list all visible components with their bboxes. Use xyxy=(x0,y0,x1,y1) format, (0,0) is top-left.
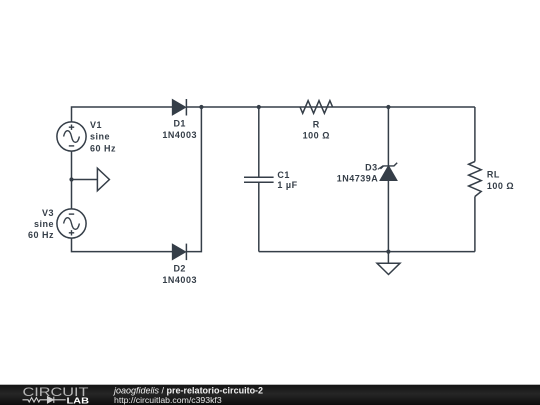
wire top-left from V1 top up and right to D1 anode xyxy=(72,107,173,122)
svg-text:60 Hz: 60 Hz xyxy=(28,230,54,240)
svg-text:D2: D2 xyxy=(173,263,186,273)
svg-text:1N4003: 1N4003 xyxy=(162,275,197,285)
diode D1 cathode bar xyxy=(185,99,187,116)
svg-text:V1: V1 xyxy=(90,120,102,130)
svg-text:http://circuitlab.com/c393kf3: http://circuitlab.com/c393kf3 xyxy=(114,395,222,405)
voltage source V1 plus sign xyxy=(69,125,74,130)
wire zener branch top xyxy=(387,107,389,166)
capacitor C1 bottom plate xyxy=(244,181,274,183)
svg-text:V3: V3 xyxy=(42,208,54,218)
junction node dot at ground xyxy=(386,250,390,254)
junction node dot at C1 top xyxy=(257,105,261,109)
svg-text:C1: C1 xyxy=(277,170,290,180)
diode D1 triangle xyxy=(173,100,186,115)
wire V1 bottom to center-tap node xyxy=(71,151,73,179)
wire bottom rail from C1 to RL corner xyxy=(259,251,475,253)
wire center-tap stub to arrow xyxy=(72,179,98,181)
ground symbol stub xyxy=(387,252,389,264)
voltage source V1 minus sign xyxy=(69,145,74,147)
junction node dot at D3 top xyxy=(386,105,390,109)
wire RL bottom to bottom rail xyxy=(474,197,476,252)
svg-text:LAB: LAB xyxy=(67,396,90,405)
svg-text:D1: D1 xyxy=(173,118,186,128)
zener diode D3 triangle xyxy=(380,166,396,180)
diode D2 cathode bar xyxy=(185,244,187,261)
svg-text:sine: sine xyxy=(90,132,110,142)
wire zener branch bottom xyxy=(387,180,389,251)
wire capacitor branch top xyxy=(258,107,260,177)
wire from D1 cathode to right corner along top xyxy=(186,106,475,108)
voltage source V1 circle xyxy=(57,122,86,151)
wire right side top corner down to RL xyxy=(474,107,476,162)
svg-text:D3: D3 xyxy=(365,162,378,172)
zener diode D3 label leader line xyxy=(378,166,383,170)
wire center-tap node to V3 top xyxy=(71,180,73,209)
voltage source V3 sine symbol xyxy=(64,218,80,230)
capacitor C1 top plate xyxy=(244,176,274,178)
wire V3 bottom down and right to D2 anode xyxy=(72,238,173,252)
svg-text:RL: RL xyxy=(487,170,500,180)
svg-text:R: R xyxy=(313,120,320,130)
voltage source V3 circle xyxy=(57,209,86,238)
junction node dot at D1/D2 cathodes xyxy=(199,105,203,109)
svg-text:60 Hz: 60 Hz xyxy=(90,143,116,153)
CircuitLab logo circuit squiggle xyxy=(23,397,66,403)
voltage source V1 sine symbol xyxy=(64,131,80,143)
svg-text:100 Ω: 100 Ω xyxy=(303,130,330,140)
svg-text:sine: sine xyxy=(34,219,54,229)
zener diode D3 cathode bar xyxy=(380,163,397,169)
ground symbol triangle xyxy=(377,263,400,274)
voltage source V3 plus sign xyxy=(69,230,74,235)
wire D2 cathode right then up to top node xyxy=(186,107,201,252)
junction node dot at center tap xyxy=(69,177,73,181)
svg-text:100 Ω: 100 Ω xyxy=(487,181,514,191)
svg-text:1N4003: 1N4003 xyxy=(162,130,197,140)
svg-text:1N4739A: 1N4739A xyxy=(337,173,379,183)
voltage source V3 minus sign xyxy=(69,213,74,215)
resistor R zigzag xyxy=(300,101,333,114)
diode D2 triangle xyxy=(173,245,186,260)
node center-tap arrow triangle xyxy=(97,168,109,191)
svg-text:1 µF: 1 µF xyxy=(277,180,297,190)
resistor RL zigzag xyxy=(469,162,482,197)
wire capacitor branch bottom xyxy=(258,182,260,251)
